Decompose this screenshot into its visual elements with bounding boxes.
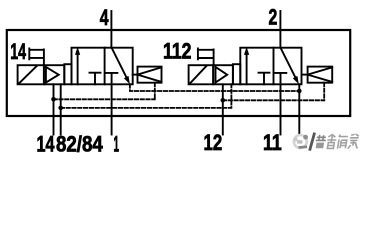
junction node B xyxy=(58,106,63,111)
junction node D xyxy=(297,89,302,94)
solenoid coil 12 xyxy=(189,65,214,84)
valve V2 body (3/2 way) xyxy=(240,48,301,85)
svg-text:4: 4 xyxy=(100,5,109,30)
valve V2 blocked port (right square) xyxy=(275,73,286,84)
wire exhaust port (under watermark) xyxy=(298,84,300,134)
pilot line node A to valve V1 return xyxy=(54,98,155,100)
watermark text (CJK strokes) xyxy=(314,134,360,149)
manifold enclosure xyxy=(7,30,350,116)
link valve V1 body to return cap xyxy=(133,74,138,76)
pilot line valve V1 exhaust to valve V2 exhaust wire xyxy=(130,84,299,91)
wire port 4 to valve V1 xyxy=(110,11,112,48)
wire port 2 to valve V2 xyxy=(279,11,281,48)
wire pilot supply port 82/84 xyxy=(60,84,62,134)
valve V1 position divider xyxy=(104,48,106,85)
wire supply port 11 xyxy=(280,84,282,134)
electrical connector, solenoid 14 xyxy=(29,48,44,65)
valve V2 blocked port (left square) xyxy=(259,73,270,85)
adapter block valve V1 xyxy=(64,64,71,84)
electrical connector, solenoid 12 xyxy=(198,48,214,65)
air spring return valve V2 xyxy=(308,67,333,83)
svg-text:11: 11 xyxy=(263,130,282,155)
valve V2 position divider xyxy=(273,48,275,85)
svg-text:2: 2 xyxy=(269,5,278,30)
valve V1 blocked port (right square) xyxy=(106,73,117,84)
junction node C xyxy=(221,98,226,103)
svg-text:14: 14 xyxy=(37,132,56,157)
solenoid coil 14 xyxy=(18,65,44,84)
wire supply port 1 xyxy=(111,84,113,134)
svg-text:82/84: 82/84 xyxy=(56,132,103,157)
svg-text:12: 12 xyxy=(204,130,223,155)
air spring return valve V1 xyxy=(138,67,162,83)
pilot line node C to valve V2 return xyxy=(223,99,324,101)
junction node A xyxy=(51,97,56,102)
valve V1 blocked port (left square) xyxy=(90,73,101,85)
pilot amplifier valve V2 xyxy=(213,65,233,84)
pilot line valve V2 return (dashed stem) xyxy=(323,83,325,101)
valve V2 flow arrow 2-exhaust xyxy=(281,48,299,85)
valve V1 flow arrow 1-4 xyxy=(75,47,80,85)
valve V2 flow arrow 1-2 xyxy=(244,47,249,85)
pilot line valve V1 return (dashed stem) xyxy=(154,83,156,100)
pilot amplifier valve V1 xyxy=(44,65,64,84)
watermark slash xyxy=(310,133,315,151)
svg-text:14: 14 xyxy=(10,39,26,64)
wire pilot port 14 xyxy=(53,84,55,134)
link valve V2 body to return cap xyxy=(302,74,308,76)
valve V1 flow arrow 4-exhaust xyxy=(112,48,130,85)
svg-text:1: 1 xyxy=(114,132,120,157)
watermark logo xyxy=(293,134,309,150)
valve V1 body (3/2 way) xyxy=(72,48,133,85)
svg-text:112: 112 xyxy=(163,39,192,64)
pilot line node B to valve V2 pilot amplifier xyxy=(61,84,232,108)
adapter block valve V2 xyxy=(233,64,240,84)
wire pilot port 12 xyxy=(222,84,224,134)
